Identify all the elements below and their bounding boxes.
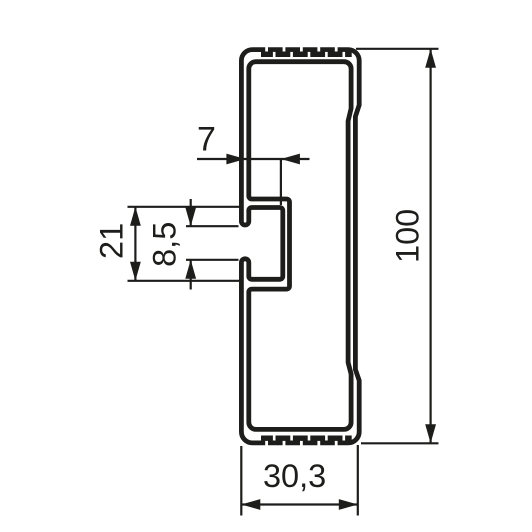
svg-text:100: 100 <box>389 209 425 263</box>
svg-text:30,3: 30,3 <box>263 458 326 494</box>
svg-text:8,5: 8,5 <box>147 222 183 267</box>
svg-text:7: 7 <box>197 120 216 158</box>
svg-text:21: 21 <box>94 223 130 259</box>
